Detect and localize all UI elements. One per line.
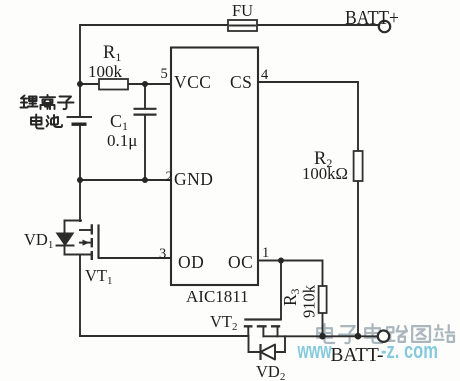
svg-text:910k: 910k <box>300 284 319 318</box>
svg-text:GND: GND <box>174 169 213 189</box>
svg-text:BATT-: BATT- <box>331 344 384 366</box>
svg-text:2: 2 <box>166 169 173 185</box>
svg-text:www: www <box>297 338 332 363</box>
svg-text:4: 4 <box>261 67 269 83</box>
svg-text:3: 3 <box>159 246 166 262</box>
svg-text:OC: OC <box>228 252 253 272</box>
svg-text:-z. com: -z. com <box>381 338 438 363</box>
svg-text:CS: CS <box>230 72 252 92</box>
svg-text:5: 5 <box>161 66 168 82</box>
svg-text:100kΩ: 100kΩ <box>302 164 348 183</box>
svg-text:BATT+: BATT+ <box>345 8 399 29</box>
svg-text:FU: FU <box>232 1 253 20</box>
svg-text:0.1μ: 0.1μ <box>107 131 137 150</box>
svg-text:100k: 100k <box>88 62 123 81</box>
svg-text:1: 1 <box>262 245 269 261</box>
svg-text:VCC: VCC <box>174 72 211 92</box>
svg-text:OD: OD <box>178 252 204 272</box>
svg-text:AIC1811: AIC1811 <box>186 287 249 306</box>
